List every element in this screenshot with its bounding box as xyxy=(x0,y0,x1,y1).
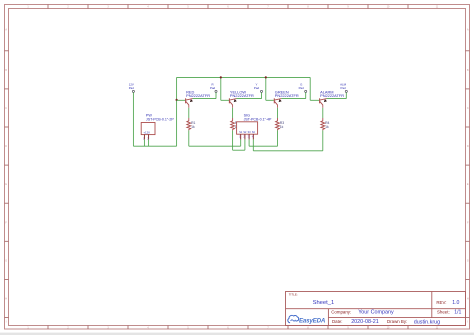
transistor Q1 RED xyxy=(186,89,211,105)
wire PW pin1 xyxy=(143,139,145,146)
svg-text:+12V: +12V xyxy=(143,131,150,135)
svg-text:Drawn By:: Drawn By: xyxy=(387,319,407,324)
wire top rail xyxy=(177,76,311,78)
svg-text:PN2222ATFR: PN2222ATFR xyxy=(186,93,210,98)
svg-text:Date:: Date: xyxy=(332,319,343,324)
transistor Q2 YELLOW xyxy=(229,89,254,105)
wire bottom left rail xyxy=(133,145,176,147)
svg-text:2020-08-21: 2020-08-21 xyxy=(351,319,379,325)
svg-text:1/1: 1/1 xyxy=(454,310,461,316)
svg-text:dustin.krug: dustin.krug xyxy=(414,319,440,325)
svg-text:PN2222ATFR: PN2222ATFR xyxy=(230,93,254,98)
wire 12V drop xyxy=(132,92,134,146)
wire GREEN collector xyxy=(281,92,305,98)
svg-text:Pad: Pad xyxy=(129,86,135,90)
wire ALARM feed xyxy=(309,77,311,100)
pad Y xyxy=(254,83,263,93)
resistor R1 xyxy=(187,118,196,130)
wire RED collector xyxy=(193,92,216,98)
wire YELLOW feed xyxy=(220,77,222,100)
svg-text:G: G xyxy=(5,260,7,262)
svg-text:TITLE:: TITLE: xyxy=(289,293,298,297)
svg-text:1.0: 1.0 xyxy=(452,300,459,306)
svg-text:REV:: REV: xyxy=(436,300,446,305)
title block xyxy=(286,291,466,325)
connector SIG JST-PCB-0.1"-4P xyxy=(237,113,272,139)
svg-text:Sheet_1: Sheet_1 xyxy=(313,300,335,306)
resistor R2 xyxy=(231,118,240,130)
svg-text:JST-PCB-0.1"-4P: JST-PCB-0.1"-4P xyxy=(244,117,272,121)
svg-text:1k: 1k xyxy=(325,125,329,129)
wire YELLOW emitter xyxy=(232,105,234,118)
svg-text:Sheet:: Sheet: xyxy=(437,310,450,315)
junction GREEN rail xyxy=(265,76,267,78)
wire R2 to SIG pin2 xyxy=(233,130,245,150)
EasyEDA logo xyxy=(288,315,326,324)
svg-text:JST-PCB-0.1"-2P: JST-PCB-0.1"-2P xyxy=(146,117,174,121)
pad R xyxy=(210,83,217,93)
wire RED emitter xyxy=(188,105,190,118)
pad ALM xyxy=(340,83,347,93)
svg-text:Pad: Pad xyxy=(210,86,216,90)
svg-text:Your Company: Your Company xyxy=(358,310,394,316)
pad G xyxy=(299,83,307,93)
svg-text:Pad: Pad xyxy=(341,86,347,90)
wire SIG pin3 to R3 xyxy=(249,130,277,146)
svg-text:Company:: Company: xyxy=(331,310,351,315)
pad 12V xyxy=(129,83,135,93)
svg-text:1k: 1k xyxy=(191,125,195,129)
wire ALARM base xyxy=(310,99,319,101)
resistor R4 xyxy=(321,118,330,130)
wire PW pin2 xyxy=(148,139,150,146)
wire ALARM emitter xyxy=(322,105,324,118)
wire GREEN feed xyxy=(265,77,267,100)
svg-text:1k: 1k xyxy=(280,125,284,129)
wire GREEN base xyxy=(266,99,274,101)
svg-text:PN2222ATFR: PN2222ATFR xyxy=(275,93,299,98)
wire R1 to SIG pin1 xyxy=(189,130,241,146)
svg-text:EasyEDA: EasyEDA xyxy=(299,317,326,324)
svg-text:Pad: Pad xyxy=(299,86,305,90)
wire YELLOW base xyxy=(221,99,229,101)
wire YELLOW collector xyxy=(236,92,261,98)
svg-text:PN2222ATFR: PN2222ATFR xyxy=(320,93,344,98)
connector PW JST-PCB-0.1"-2P xyxy=(141,113,174,140)
transistor Q3 GREEN xyxy=(274,89,299,105)
wire ALARM collector xyxy=(327,92,347,98)
wire RED base xyxy=(177,99,186,101)
junction YELLOW rail xyxy=(220,76,222,78)
wire RED feed xyxy=(176,77,178,146)
wire SIG pin4 to R4 xyxy=(253,130,322,150)
resistor R3 xyxy=(276,118,285,130)
junction RED base xyxy=(176,99,178,101)
svg-text:Pad: Pad xyxy=(254,86,260,90)
transistor Q4 ALARM xyxy=(320,89,345,105)
svg-text:G: G xyxy=(467,260,469,262)
wire GREEN emitter xyxy=(277,105,279,118)
